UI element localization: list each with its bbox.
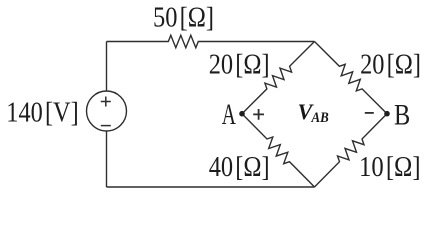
polarity + at node A — [253, 109, 264, 120]
wire: source - terminal down to bottom-left corner — [106, 131, 108, 187]
svg-text:AB: AB — [311, 110, 329, 126]
svg-text:20[Ω]: 20[Ω] — [360, 50, 421, 81]
node A (junction dot) — [239, 111, 245, 117]
svg-text:B: B — [394, 98, 410, 131]
resistor 10[&#937;] lower-right bridge arm (node B to bottom node) — [315, 114, 388, 187]
wire: bottom horizontal to bridge bottom node — [107, 186, 315, 188]
node B (junction dot) — [384, 111, 390, 117]
svg-text:20[Ω]: 20[Ω] — [209, 50, 270, 81]
svg-text:A: A — [222, 98, 237, 131]
svg-text:10[Ω]: 10[Ω] — [359, 152, 421, 183]
resistor 40[&#937;] lower-left bridge arm (node A to bottom node) — [242, 114, 315, 187]
polarity - at node B — [365, 112, 374, 114]
svg-text:140[V]: 140[V] — [6, 98, 78, 129]
resistor 20[&#937;] upper-right bridge arm (top node to node B) — [315, 42, 388, 114]
svg-text:40[Ω]: 40[Ω] — [209, 152, 270, 183]
resistor 20[&#937;] upper-left bridge arm (top node to node A) — [242, 42, 315, 114]
label: node name B — [394, 98, 410, 131]
wire: source + terminal up to top-left corner — [106, 42, 108, 92]
svg-text:50[Ω]: 50[Ω] — [153, 3, 214, 34]
voltage source 140[V] — [87, 91, 127, 131]
label: node name A — [222, 98, 237, 131]
label: V_AB (bridge voltage) — [298, 99, 329, 126]
resistor 50[&#937;] in top wire — [107, 35, 315, 47]
